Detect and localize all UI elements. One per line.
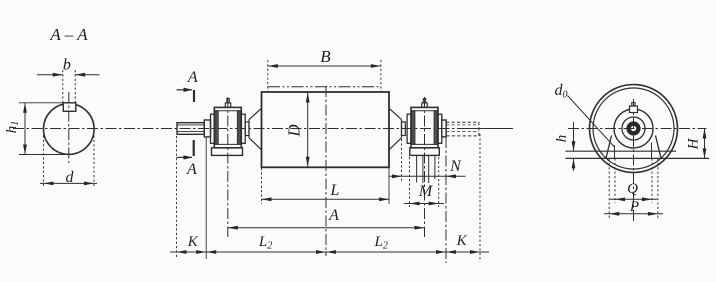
dimension L extension line right [388,167,390,204]
bottom dimension row line [170,251,489,253]
label b [63,57,71,74]
label A dim [328,207,339,224]
label M [418,183,434,200]
extension line phantom end [445,137,447,263]
dimension h1 line with arrows [23,103,27,155]
left bearing grease nipple [225,99,230,108]
view title A-A [49,25,88,44]
dimension L extension line left [261,168,263,204]
end view vertical centerline [633,99,635,222]
section cut mark bottom [177,140,194,160]
dimension L2 right arrows [326,250,446,254]
left bearing housing [214,107,241,147]
pedestal left leg [606,136,612,159]
right shaft collar [442,120,446,137]
extension line far right K [479,134,481,262]
label d [66,169,75,186]
svg-text:Q: Q [627,181,638,197]
left shaft stub inside [245,122,249,136]
label D [285,124,304,138]
label L [329,182,339,199]
right bearing grease nipple [422,99,427,108]
Q extension lines [615,158,652,203]
svg-text:L: L [329,182,339,199]
end view grease nipple [630,103,638,113]
belt width chain line [268,86,381,88]
pedestal right leg [656,136,662,159]
dimension A line with arrows [228,226,425,230]
dimension N line with outside arrows [389,174,465,178]
bearing housing circle [614,109,653,148]
label h1 [4,121,21,134]
label d0 [555,82,568,101]
dimension b line with outside arrows [37,73,100,77]
svg-text:A: A [328,207,339,224]
drum inner circle [593,88,674,169]
label K left [187,234,199,250]
svg-text:K: K [187,234,199,250]
svg-text:M: M [418,183,434,200]
label N [449,158,462,175]
svg-text:A: A [187,69,198,86]
pedestal base plate bottom line [566,157,710,159]
right bearing housing [411,107,438,147]
right bearing base [410,148,440,156]
label P [629,199,639,215]
right bearing housing hatch bands [412,111,438,145]
drum outer circle [590,85,678,173]
right bearing vertical centerline [424,97,426,237]
dimension N extension hub line [401,139,403,181]
dimension h1 extension lines [19,103,73,155]
d0 leader line [568,96,615,148]
left bearing housing top line [214,110,241,112]
base plate slot lines [615,143,652,159]
svg-text:B: B [320,47,331,66]
label L2 right [374,234,388,252]
right shaft stub inside [402,122,406,136]
dimension d extension lines [44,131,95,186]
right bearing inner flange [407,114,411,143]
left shaft keyseat lines [177,125,204,132]
dimension B line with arrows [268,64,381,68]
drum vertical centerline [325,86,327,256]
label L2 left [258,234,272,252]
svg-text:D: D [285,124,304,138]
left bearing housing bottom line [214,143,241,145]
dimension Q line with arrows [610,197,657,201]
svg-text:b: b [63,57,71,74]
main horizontal centerline [13,128,513,130]
left bearing vertical centerline [227,97,229,237]
dimension P line with arrows [604,212,663,216]
label h [554,135,570,143]
drum shell [262,92,390,167]
svg-text:d0: d0 [555,82,568,101]
section cut mark top [177,88,195,102]
svg-text:h1: h1 [4,121,21,134]
left bearing housing hatch bands [215,111,241,145]
svg-text:N: N [449,158,462,175]
left bearing base [212,148,243,156]
svg-text:H: H [686,137,702,150]
svg-text:A – A: A – A [49,25,88,44]
svg-text:L2: L2 [258,234,272,252]
label H [686,137,702,150]
section A-A shaft circle [44,104,95,155]
right end-disc cone [389,108,402,150]
dimension L2 left arrows [206,250,326,254]
svg-text:K: K [456,233,468,249]
label Q [627,181,638,197]
dimension M extension lines [410,157,439,207]
svg-text:d: d [66,169,75,186]
svg-text:P: P [629,199,639,215]
left end-disc cone [249,108,262,150]
label K right [456,233,468,249]
left shaft collar [204,120,210,137]
P extension lines [609,158,658,218]
phantom shaft extension dashed [446,122,479,136]
extension line shaft end K [176,136,178,259]
section letter A top [187,69,198,86]
end view horizontal centerline [568,128,707,130]
right bearing bolt slot lines [417,155,435,183]
dimension M line with arrows [404,202,444,206]
right bearing housing bottom line [411,143,438,145]
left bearing outer flange [211,114,215,143]
shaft dark ring [629,124,639,134]
left bearing inner flange [241,114,245,143]
dimension K right arrows [446,250,480,254]
dimension K left arrows [177,250,207,254]
dimension D arrow line [306,93,310,167]
circle vertical centerline [68,92,70,163]
section letter A bottom [186,161,197,178]
dimension B extension lines [268,60,381,92]
dimension d line with arrows [40,182,97,186]
pedestal base plate top line [566,150,677,152]
svg-text:h: h [554,135,570,143]
label B [320,47,331,66]
bearing circle [622,117,645,140]
right bearing housing top line [411,110,438,112]
svg-text:A: A [186,161,197,178]
dimension L line with arrows [262,197,390,201]
right bearing outer flange [438,114,442,143]
dimension H line with arrows [703,129,707,159]
dimension b extension lines [63,70,75,104]
extension line bearing base K [205,137,207,259]
left shaft end [177,123,204,135]
dimension h outside arrows [572,122,576,171]
svg-text:L2: L2 [374,234,388,252]
keyway cutout on shaft circle [63,103,76,112]
centerline solid tail right [464,128,513,130]
